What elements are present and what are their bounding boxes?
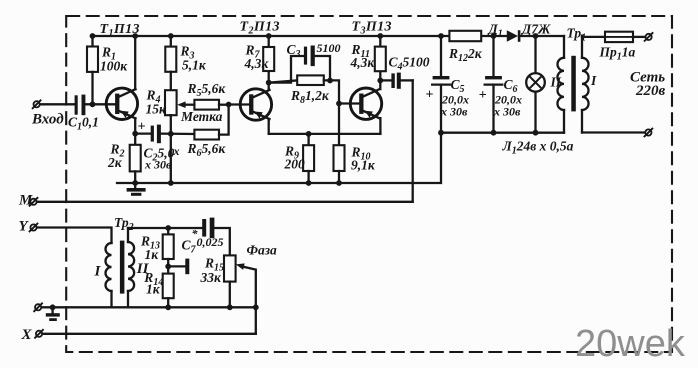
dashed schematic border frame <box>66 16 672 352</box>
wire top supply rail <box>91 35 449 37</box>
ground symbol bottom-left <box>46 307 60 321</box>
resistor R3 <box>170 36 172 47</box>
node ground stub <box>50 304 56 310</box>
resistor R8 <box>269 75 339 103</box>
node T3 collector / C4 <box>377 78 383 84</box>
svg-text:I: I <box>94 264 102 280</box>
resistor R5 with wiper arrow into R4 <box>177 100 228 110</box>
svg-text:х 30в: х 30в <box>493 105 521 119</box>
wire C2 to R6/R4 node <box>161 132 194 135</box>
node rail-C5 <box>438 33 444 39</box>
svg-text:+: + <box>426 88 434 103</box>
svg-text:100к: 100к <box>100 59 128 74</box>
svg-text:5,1к: 5,1к <box>182 58 207 73</box>
capacitor C6 electrolytic <box>485 36 503 133</box>
wire fuse to terminal <box>633 36 645 38</box>
svg-text:R65,6к: R65,6к <box>187 141 227 159</box>
svg-text:Y: Y <box>19 219 30 235</box>
transformer Tr2 core <box>120 241 125 294</box>
node rail-R7 <box>266 33 272 39</box>
lamp L1 <box>526 36 545 133</box>
terminal Y <box>30 224 36 230</box>
svg-text:+: + <box>479 88 487 103</box>
node R9 top <box>306 131 312 137</box>
svg-text:R122к: R122к <box>448 46 483 64</box>
wire Tr2 secondary top <box>128 227 202 229</box>
node base T1 / R1 <box>90 101 96 107</box>
capacitor C2 <box>135 132 150 134</box>
wire C4 down to M rail <box>412 80 414 201</box>
wire C1 to T1 base <box>85 103 116 105</box>
capacitor C7 <box>202 218 214 239</box>
svg-text:Л124в х 0,5а: Л124в х 0,5а <box>502 139 574 157</box>
resistor R6 <box>194 105 228 140</box>
wiper arrow R15 / Фаза line <box>236 263 256 333</box>
transformer Tr1 core <box>571 56 576 112</box>
wire ground terminal to Tr2 <box>42 306 112 308</box>
resistor R14 <box>163 274 174 299</box>
svg-text:Т1П13: Т1П13 <box>100 22 140 39</box>
capacitor C5 electrolytic <box>432 36 450 133</box>
svg-text:II: II <box>550 75 562 90</box>
transformer Tr2 winding II <box>128 228 134 307</box>
chassis ground bar <box>168 259 189 275</box>
svg-text:Вход: Вход <box>31 112 64 128</box>
wire T2 emitter down <box>268 119 270 134</box>
wire Y to Tr2 <box>37 228 111 244</box>
terminal mains top <box>646 34 652 40</box>
terminal X <box>36 331 42 337</box>
svg-text:X: X <box>21 327 33 343</box>
svg-text:Фаза: Фаза <box>247 243 277 258</box>
node wiper line / bottom wire <box>253 304 259 310</box>
wire power bottom rail <box>441 132 564 134</box>
wire ground rail <box>117 133 441 183</box>
svg-text:М: М <box>18 193 33 209</box>
node R4 bottom / C2 / R6 <box>168 131 174 137</box>
transistor T3 П13 <box>350 88 381 119</box>
node rail-R3 <box>168 33 174 39</box>
svg-text:Тр1: Тр1 <box>567 26 587 44</box>
wire Tr2 secondary bottom <box>112 306 256 308</box>
terminal input Вход <box>34 101 40 107</box>
wire T3 collector up <box>379 71 381 89</box>
transformer Tr1 winding I <box>582 36 589 133</box>
node R15 bottom <box>227 304 233 310</box>
svg-text:Тр2: Тр2 <box>114 215 134 233</box>
node rail-R11 <box>377 33 383 39</box>
node T2 base / R5 / R6 <box>226 102 232 108</box>
svg-text:х 30в: х 30в <box>440 105 468 119</box>
svg-text:R55,6к: R55,6к <box>187 81 227 99</box>
potentiometer R4 <box>165 90 177 115</box>
resistor R9 <box>307 134 309 145</box>
node rail-T1 collector <box>132 33 138 39</box>
potentiometer R15 <box>224 255 236 281</box>
node C5 bottom <box>438 130 444 136</box>
svg-text:2к: 2к <box>107 155 123 170</box>
svg-text:Т2П13: Т2П13 <box>240 20 280 37</box>
svg-text:Метка: Метка <box>180 109 223 124</box>
svg-text:5100: 5100 <box>317 41 341 55</box>
node R2-ground rail <box>132 180 138 186</box>
transformer Tr1 winding II <box>557 36 564 133</box>
node R14 bottom <box>165 304 171 310</box>
diode D1 Д7Ж <box>507 30 518 42</box>
svg-text:С45100: С45100 <box>389 55 430 73</box>
svg-text:+: + <box>138 120 146 135</box>
wire emitter rail T2-T3 <box>269 133 381 135</box>
node T3 base / R10 <box>336 101 342 107</box>
capacitor C1 <box>75 95 86 116</box>
wire C7 to R15 <box>214 228 230 255</box>
resistor R12 <box>449 31 481 41</box>
node C3-R8 right <box>327 78 333 84</box>
svg-text:I: I <box>590 73 597 88</box>
node R13 top <box>165 225 171 231</box>
svg-text:220в: 220в <box>635 83 666 99</box>
svg-text:33к: 33к <box>200 270 223 285</box>
resistor R2 <box>134 134 136 145</box>
wire input to C1 <box>40 103 74 105</box>
node R9-ground rail <box>306 180 312 186</box>
wire T1 collector to rail <box>134 36 136 89</box>
wire T2 collector up to R7 <box>268 71 270 90</box>
wire Tr1 bottom to terminal <box>582 131 645 133</box>
svg-text:Пр11а: Пр11а <box>599 45 636 63</box>
ground under R2 <box>127 183 146 196</box>
resistor R7 <box>268 36 270 47</box>
node lamp bottom <box>533 130 539 136</box>
fuse Pr1 <box>605 32 633 42</box>
svg-text:20wek: 20wek <box>575 323 686 365</box>
wire T3 emitter down <box>379 118 381 134</box>
node R4-ground rail <box>168 180 174 186</box>
transistor T1 П13 <box>106 88 137 119</box>
resistor R10 <box>338 104 340 146</box>
node R10-ground rail <box>336 180 342 186</box>
svg-text:Д7Ж: Д7Ж <box>520 22 551 37</box>
wire Tr1 to fuse <box>582 36 605 37</box>
svg-text:С3: С3 <box>287 42 301 60</box>
svg-text:4,3к: 4,3к <box>350 55 376 70</box>
svg-text:R81,2к: R81,2к <box>290 88 330 106</box>
wire node to T3 base <box>339 102 359 104</box>
node rail-lamp <box>533 33 539 39</box>
wire T1 emitter down <box>134 118 136 133</box>
resistor R13 <box>167 228 169 234</box>
wire X rail <box>43 333 256 335</box>
svg-text:9,1к: 9,1к <box>351 158 376 173</box>
node T1 emitter <box>132 131 138 137</box>
wire M rail <box>37 201 413 203</box>
svg-text:1к: 1к <box>145 247 160 262</box>
resistor R1 <box>91 36 93 47</box>
svg-text:200: 200 <box>284 157 306 172</box>
transistor T2 П13 <box>240 89 271 120</box>
node rail-R1 <box>90 33 96 39</box>
svg-text:15к: 15к <box>146 102 168 117</box>
node R13-R14 / chassis <box>165 264 171 270</box>
node rail-C6 <box>491 33 497 39</box>
node C6 bottom <box>491 130 497 136</box>
resistor R11 <box>379 36 381 47</box>
svg-text:С10,1: С10,1 <box>68 115 99 133</box>
wire node to T2 base <box>229 103 249 105</box>
svg-text:х: х <box>173 144 180 158</box>
capacitor C3 <box>269 46 330 83</box>
node T2 collector / R8 / C3 <box>266 80 272 86</box>
svg-text:Т3П13: Т3П13 <box>352 20 392 37</box>
transformer Tr2 winding I <box>106 243 112 307</box>
terminal mains bottom <box>645 129 651 135</box>
terminal ground bottom-left <box>35 304 41 310</box>
svg-text:0,025: 0,025 <box>197 235 224 249</box>
svg-text:1к: 1к <box>146 282 161 297</box>
terminal M <box>30 199 36 205</box>
svg-text:х 30в: х 30в <box>144 158 172 172</box>
svg-text:4,3к: 4,3к <box>244 56 270 71</box>
capacitor C4 <box>380 73 412 89</box>
